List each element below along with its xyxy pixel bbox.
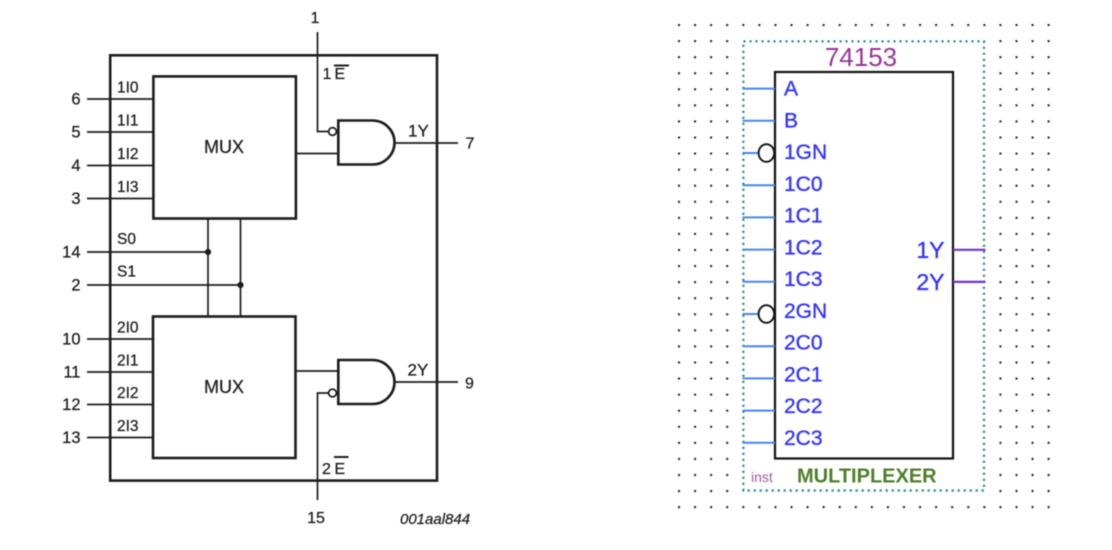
svg-text:5: 5 [71, 124, 80, 142]
svg-text:1C1: 1C1 [784, 205, 823, 228]
svg-text:2Y: 2Y [916, 269, 944, 295]
svg-text:10: 10 [62, 331, 80, 349]
svg-text:1C0: 1C0 [784, 173, 823, 196]
svg-text:13: 13 [62, 429, 80, 447]
svg-text:14: 14 [62, 244, 80, 262]
svg-text:B: B [784, 110, 798, 133]
svg-text:6: 6 [71, 91, 80, 109]
svg-text:inst: inst [751, 469, 773, 485]
svg-text:1: 1 [323, 66, 332, 83]
svg-text:1C2: 1C2 [784, 236, 823, 259]
svg-text:E: E [335, 461, 346, 478]
svg-text:2: 2 [322, 461, 331, 478]
svg-text:2Y: 2Y [408, 361, 429, 380]
svg-text:7: 7 [466, 136, 475, 153]
svg-text:1I3: 1I3 [117, 179, 139, 196]
svg-text:1Y: 1Y [916, 237, 944, 263]
svg-text:2I2: 2I2 [117, 385, 139, 402]
svg-text:1I0: 1I0 [117, 80, 139, 97]
svg-text:1I2: 1I2 [117, 146, 139, 163]
svg-text:1Y: 1Y [408, 122, 429, 141]
svg-text:2I1: 2I1 [117, 353, 139, 370]
svg-text:74153: 74153 [825, 42, 897, 72]
svg-text:12: 12 [62, 396, 80, 414]
svg-text:2: 2 [71, 277, 80, 295]
svg-text:001aal844: 001aal844 [400, 511, 470, 528]
svg-text:2C0: 2C0 [784, 332, 823, 355]
svg-text:2C3: 2C3 [784, 427, 823, 450]
svg-text:S1: S1 [117, 264, 136, 281]
svg-text:2C2: 2C2 [784, 395, 823, 418]
svg-text:A: A [784, 78, 798, 101]
svg-text:9: 9 [465, 376, 474, 393]
svg-text:1: 1 [311, 10, 320, 27]
svg-text:1I1: 1I1 [117, 113, 139, 130]
svg-text:4: 4 [71, 157, 80, 175]
svg-text:2C1: 2C1 [784, 363, 823, 386]
svg-text:1C3: 1C3 [784, 268, 823, 291]
svg-text:MUX: MUX [204, 137, 244, 157]
svg-text:MULTIPLEXER: MULTIPLEXER [797, 466, 937, 488]
svg-text:11: 11 [63, 364, 80, 382]
svg-text:1GN: 1GN [784, 141, 827, 164]
svg-text:15: 15 [307, 510, 325, 527]
svg-text:E: E [335, 66, 346, 83]
svg-text:2I3: 2I3 [117, 418, 139, 435]
svg-text:S0: S0 [117, 231, 136, 248]
svg-text:MUX: MUX [204, 377, 244, 397]
svg-text:2I0: 2I0 [117, 320, 139, 337]
svg-text:2GN: 2GN [784, 300, 827, 323]
svg-text:3: 3 [71, 190, 80, 208]
